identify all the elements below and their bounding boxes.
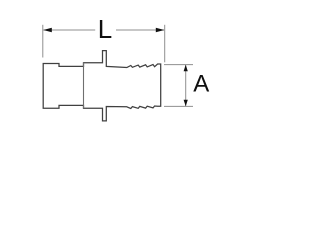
svg-text:L: L <box>98 14 112 44</box>
dimension L extension line left <box>42 25 44 58</box>
dimension L arrow left <box>43 28 52 33</box>
dimension A arrow down <box>184 100 188 107</box>
dimension A arrow up <box>184 65 188 72</box>
dimension L arrow right <box>156 28 165 33</box>
dimension A line <box>185 65 187 106</box>
hex face internal line <box>83 63 85 108</box>
dimension L extension line right <box>164 25 166 63</box>
dimension A extension line bottom <box>164 105 193 107</box>
dimension L line left segment <box>44 29 96 31</box>
svg-text:A: A <box>193 71 209 98</box>
collar, body, hex, ring, barb outline <box>43 51 161 121</box>
dimension A extension line top <box>164 64 193 66</box>
dimension L line right segment <box>116 29 164 31</box>
part outline: hose barb adapter body <box>43 51 161 121</box>
